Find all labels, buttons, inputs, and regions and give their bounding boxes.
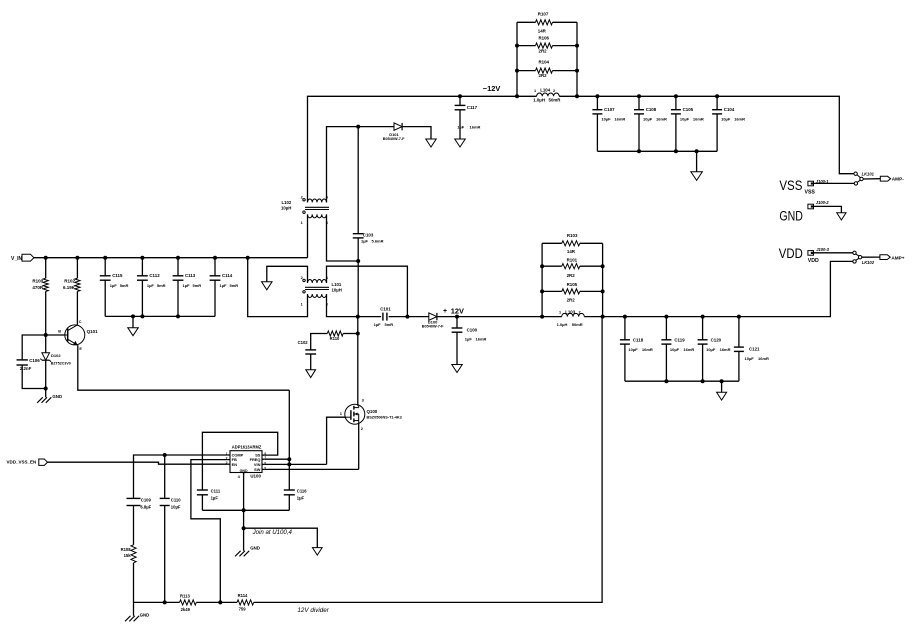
wire bank2 right bus — [602, 243, 604, 316]
svg-text:6.8µF: 6.8µF — [140, 505, 151, 510]
wire R103 leads — [542, 242, 562, 244]
pin SW stub — [262, 468, 265, 470]
svg-text:16mR: 16mR — [656, 116, 667, 121]
svg-text:C119: C119 — [674, 337, 685, 342]
svg-text:50mR: 50mR — [572, 322, 583, 327]
svg-text:C114: C114 — [222, 273, 233, 278]
wire R104 leads — [517, 70, 536, 72]
svg-text:C117: C117 — [467, 105, 478, 110]
svg-text:10µF: 10µF — [171, 505, 181, 510]
svg-text:B0540W-7-F: B0540W-7-F — [422, 325, 444, 329]
svg-text:470R: 470R — [32, 285, 44, 290]
svg-text:2k49: 2k49 — [181, 607, 191, 612]
svg-text:BZT52C3V0: BZT52C3V0 — [51, 361, 71, 365]
jumper LK101 — [854, 172, 857, 175]
svg-text:50mR: 50mR — [549, 98, 562, 103]
svg-text:2R2: 2R2 — [539, 73, 548, 78]
capacitor C120 — [698, 339, 708, 341]
svg-text:C112: C112 — [149, 273, 160, 278]
svg-text:VDD_VSS_EN: VDD_VSS_EN — [7, 460, 37, 465]
svg-text:12V divider: 12V divider — [297, 607, 329, 614]
svg-text:Q100: Q100 — [367, 409, 378, 414]
svg-text:1µF: 1µF — [374, 322, 382, 327]
node input bus junctions — [131, 314, 135, 318]
wire C118 leads — [624, 317, 626, 340]
resistor R114 — [237, 600, 254, 605]
svg-text:10µH: 10µH — [281, 205, 291, 210]
svg-text:1µF: 1µF — [297, 496, 305, 501]
connector J100-1 — [808, 181, 814, 186]
node C108 top — [637, 94, 641, 98]
node SW top junction — [356, 315, 360, 319]
pin FREQ stub — [262, 458, 265, 460]
wire R107 leads — [517, 21, 536, 23]
svg-text:16mR: 16mR — [614, 116, 625, 121]
wire bottom line left — [134, 601, 180, 603]
capacitor C117 — [455, 104, 466, 106]
svg-text:10µH: 10µH — [332, 288, 342, 293]
wire L101 pin1 to V_IN branch — [248, 258, 308, 317]
svg-text:12V: 12V — [451, 306, 464, 315]
wire R108 to bottom line — [133, 563, 135, 603]
wire C110 column — [164, 455, 166, 498]
capacitor C106 — [17, 359, 28, 361]
svg-text:5.6mR: 5.6mR — [372, 239, 384, 244]
svg-text:C103: C103 — [363, 232, 374, 237]
node bank2 right junctions — [601, 264, 605, 268]
node +12V bank bus junctions — [664, 379, 668, 383]
svg-text:C104: C104 — [724, 107, 735, 112]
svg-text:1µF: 1µF — [361, 239, 369, 244]
svg-text:C: C — [79, 320, 82, 324]
wire D101 cathode to ground — [402, 127, 431, 139]
inductor L104 — [537, 93, 560, 96]
wire +12V rail through bank2 — [542, 316, 562, 318]
capacitor C110 — [160, 497, 170, 499]
zener diode D102 — [42, 353, 50, 360]
capacitor C119 — [661, 339, 671, 341]
svg-text:3: 3 — [326, 303, 328, 307]
svg-text:2: 2 — [553, 89, 555, 93]
svg-text:759: 759 — [239, 606, 247, 611]
svg-text:C120: C120 — [711, 337, 722, 342]
wire +12V bank ground stub — [721, 381, 723, 392]
transformer L101 bottom winding — [308, 294, 327, 297]
resistor R101 — [562, 264, 580, 269]
svg-text:R108: R108 — [121, 547, 132, 552]
ground at C117 — [455, 139, 466, 147]
wire C117 leads — [459, 96, 461, 105]
svg-text:10µF: 10µF — [628, 347, 638, 352]
ground GND hatched at U100 — [235, 551, 241, 557]
wire L101 pin4 to C101 right node — [327, 266, 408, 316]
ground at C102 — [306, 370, 316, 378]
svg-text:R104: R104 — [539, 59, 550, 64]
capacitor C102 — [305, 349, 316, 351]
svg-text:AMP+: AMP+ — [891, 255, 904, 260]
wire supply vertical — [288, 390, 290, 490]
node bank1 left bus junctions — [515, 44, 519, 48]
wire zener to ground node — [45, 360, 47, 388]
svg-text:R103: R103 — [567, 233, 578, 238]
resistor R106 — [536, 43, 553, 48]
wire Q101 base wire — [46, 334, 65, 336]
node COMP C110 junction — [163, 453, 167, 457]
wire L102 pin4 to D101 anode node — [327, 127, 394, 203]
wire join at U100 4 — [244, 528, 318, 547]
wire base node to cap branch — [22, 335, 46, 359]
capacitor C109 — [127, 497, 141, 499]
svg-text:L101: L101 — [332, 282, 342, 287]
svg-text:2R2: 2R2 — [567, 273, 576, 278]
wire R102 bottom to Q101 collector — [76, 291, 78, 325]
wire C108 leads — [638, 96, 640, 109]
wire L101 pin3 to SW node — [327, 294, 358, 317]
svg-text:C110: C110 — [171, 497, 181, 502]
svg-text:+: + — [443, 308, 447, 315]
node ground bus junction — [242, 508, 246, 512]
wire SW line — [265, 468, 359, 470]
wire Q100 gate route — [327, 417, 345, 464]
wire C109 to R108 — [133, 506, 135, 545]
wire R105 leads — [542, 290, 562, 292]
svg-text:1.0µH: 1.0µH — [533, 98, 545, 103]
pin SS stub — [262, 454, 265, 456]
node C103 bottom / L102 pin3 junction — [356, 259, 360, 263]
wire C103 top lead — [357, 127, 359, 234]
wire D100 cathode to +12V rail — [438, 316, 542, 318]
svg-text:2R2: 2R2 — [567, 298, 576, 303]
capacitor C121 — [734, 346, 744, 348]
svg-text:16mR: 16mR — [470, 125, 481, 130]
wire +12V bank bottom bus — [625, 380, 739, 382]
wire -12V rail from L102 pin2 to LK101 — [308, 96, 537, 202]
node D101 anode / C103 top junction — [356, 125, 360, 129]
diode D101 — [394, 123, 402, 130]
wire SW node vertical to Q100 drain — [357, 317, 359, 406]
svg-text:L103: L103 — [565, 309, 576, 314]
wire C114 leads — [214, 258, 216, 276]
wire C113 leads — [177, 258, 179, 276]
svg-text:V_IN: V_IN — [11, 256, 23, 262]
node C117 top — [458, 94, 462, 98]
capacitor C113 — [173, 275, 184, 277]
input flag VDD_VSS_EN — [39, 459, 48, 465]
ground GND hatched at divider — [125, 616, 131, 622]
svg-text:1: 1 — [534, 89, 536, 93]
connector J100-3 — [808, 251, 814, 256]
svg-text:B: B — [58, 329, 61, 333]
node FREQ junction — [287, 457, 291, 461]
phase dot L102 top — [303, 199, 305, 201]
svg-text:R107: R107 — [538, 12, 549, 17]
capacitor C116 — [284, 489, 295, 491]
wire C107 leads — [596, 96, 598, 109]
resistor R107 — [536, 20, 553, 25]
node R110 junction — [356, 332, 360, 336]
wire FB route — [191, 460, 228, 603]
capacitor C101 — [382, 313, 384, 321]
svg-text:5mR: 5mR — [230, 283, 239, 288]
svg-text:2R2: 2R2 — [539, 49, 548, 54]
wire GND pin 4 down — [243, 473, 245, 551]
svg-text:AMP-: AMP- — [892, 177, 904, 182]
transformer L102 core — [305, 206, 329, 208]
wire EN line — [48, 462, 228, 464]
svg-text:10µF: 10µF — [670, 347, 680, 352]
wire bottom GND stub — [133, 602, 135, 615]
node C104 top — [715, 94, 719, 98]
ground at D101 cathode — [426, 139, 437, 147]
svg-text:Q101: Q101 — [87, 329, 99, 334]
svg-text:C115: C115 — [112, 273, 123, 278]
svg-text:C106: C106 — [29, 358, 40, 363]
svg-text:1: 1 — [301, 221, 303, 225]
svg-text:16mR: 16mR — [683, 347, 694, 352]
resistor R108 — [131, 545, 136, 563]
svg-text:16mR: 16mR — [642, 347, 653, 352]
wire input bus ground stub — [132, 316, 134, 327]
transistor Q101 — [65, 325, 85, 345]
node bank1 right bus junctions — [575, 44, 579, 48]
wire C102 bottom lead — [310, 354, 312, 369]
svg-text:R114: R114 — [238, 593, 248, 598]
capacitor C103 — [353, 233, 364, 235]
svg-text:C108: C108 — [646, 107, 657, 112]
svg-text:5mR: 5mR — [193, 283, 202, 288]
svg-text:5mR: 5mR — [385, 322, 394, 327]
wire L101 pin2 to ground — [267, 266, 308, 283]
svg-text:C113: C113 — [185, 273, 196, 278]
node +12V C100 junction — [455, 315, 459, 319]
wire LK101 to AMP- flag — [863, 178, 880, 180]
svg-text:1µF: 1µF — [457, 125, 465, 130]
svg-text:BSZ0506NS-T1-4K3: BSZ0506NS-T1-4K3 — [367, 416, 402, 420]
svg-text:R101: R101 — [567, 257, 578, 262]
node V_IN rail junctions — [44, 256, 48, 260]
ground at +12V bank — [717, 392, 727, 400]
svg-text:GND: GND — [140, 613, 150, 618]
svg-text:3: 3 — [326, 221, 328, 225]
connector J100-2 — [808, 204, 814, 209]
node C105 top — [674, 94, 678, 98]
resistor R110 — [327, 331, 343, 336]
wire Q100 source route — [358, 423, 360, 470]
pin COMP stub — [228, 454, 230, 456]
wire +12V rail right section to LK102 — [603, 261, 853, 316]
svg-text:C109: C109 — [141, 497, 152, 502]
svg-text:10µF: 10µF — [745, 356, 755, 361]
node C110 bottom junction — [163, 600, 167, 604]
wire bottom line to +12V bank bus — [254, 317, 602, 603]
wire top bank left bus — [516, 22, 518, 96]
node C119 top — [664, 315, 668, 319]
wire R101 leads — [542, 265, 562, 267]
wire top bank right bus — [576, 22, 578, 96]
diode D100 — [429, 313, 437, 320]
resistor R104 — [536, 68, 553, 73]
resistor R105 — [562, 289, 580, 294]
node FB tap junction — [218, 600, 222, 604]
node C101 right junction — [405, 315, 409, 319]
wire R100 bottom to zener — [45, 291, 47, 352]
svg-text:R105: R105 — [567, 282, 578, 287]
node -12V bank bus junctions — [637, 149, 641, 153]
wire R100 top lead — [45, 258, 47, 279]
wire SW node to C101 — [358, 316, 381, 318]
svg-text:1µF: 1µF — [465, 337, 473, 342]
transformer L101 core — [305, 286, 329, 288]
capacitor C104 — [712, 109, 722, 111]
jumper LK102 — [853, 251, 856, 254]
svg-text:1µF: 1µF — [147, 283, 155, 288]
svg-text:−12V: −12V — [483, 84, 501, 93]
svg-text:R100: R100 — [32, 279, 43, 284]
phase dot L101 bottom — [303, 291, 305, 293]
svg-text:D100: D100 — [428, 319, 438, 324]
svg-text:C111: C111 — [211, 488, 221, 493]
svg-text:C118: C118 — [633, 337, 644, 342]
svg-text:C101: C101 — [380, 306, 391, 311]
transformer L101 top winding — [308, 280, 327, 283]
ground at L101 pin2 — [262, 282, 273, 290]
resistor R113 — [180, 600, 197, 605]
svg-text:ADP1613ARMZ: ADP1613ARMZ — [232, 444, 262, 449]
capacitor C115 — [100, 275, 111, 277]
svg-text:1: 1 — [301, 303, 303, 307]
svg-text:VDD: VDD — [779, 246, 803, 262]
wire -12V bank bottom bus — [597, 150, 717, 152]
wire C119 leads — [665, 317, 667, 340]
capacitor C112 — [137, 275, 148, 277]
svg-text:C100: C100 — [467, 328, 478, 333]
ground at join wire — [312, 548, 322, 556]
inductor L103 — [562, 313, 585, 316]
svg-text:16mR: 16mR — [720, 347, 731, 352]
wire J100-1 to LK101 — [814, 182, 855, 184]
svg-text:L104: L104 — [540, 88, 551, 93]
wire U100 ground bus — [202, 509, 289, 511]
svg-text:VDD: VDD — [808, 258, 819, 264]
output flag AMP+ — [880, 255, 890, 260]
svg-text:14R: 14R — [538, 28, 547, 33]
pin GND stub — [243, 473, 245, 475]
op-amp U100 body — [230, 451, 262, 473]
wire C121 leads — [738, 317, 740, 347]
capacitor C107 — [592, 109, 602, 111]
node C118 top — [623, 315, 627, 319]
svg-text:C105: C105 — [683, 107, 694, 112]
phase dot L101 top — [303, 279, 305, 281]
svg-text:C121: C121 — [749, 347, 760, 352]
svg-text:1µF: 1µF — [220, 283, 228, 288]
svg-text:10µF: 10µF — [706, 347, 716, 352]
svg-text:J100-3: J100-3 — [816, 247, 829, 252]
svg-text:6.19K: 6.19K — [63, 285, 76, 290]
output flag AMP- — [880, 176, 890, 181]
svg-text:R106: R106 — [539, 35, 550, 40]
wire to GND stub — [45, 389, 47, 398]
transformer L102 bottom winding — [308, 214, 327, 217]
node Q101 base junction — [44, 333, 48, 337]
wire input caps bottom bus — [105, 315, 215, 317]
svg-text:2: 2 — [579, 311, 581, 315]
wire SS loop to C111 — [202, 432, 277, 489]
svg-text:C116: C116 — [297, 488, 307, 493]
svg-text:LK102: LK102 — [862, 260, 875, 265]
ground GND hatched at D102 — [37, 397, 43, 403]
wire C104 leads — [716, 96, 718, 109]
wire bank2 left bus — [541, 243, 543, 316]
capacitor C108 — [634, 109, 644, 111]
svg-text:E: E — [79, 347, 82, 351]
svg-text:GND: GND — [52, 394, 62, 399]
node VIN junction — [287, 462, 291, 466]
svg-text:10µF: 10µF — [721, 116, 731, 121]
phase dot L102 bottom — [303, 211, 305, 213]
svg-text:L102: L102 — [282, 200, 292, 205]
wire COMP line — [134, 455, 228, 498]
svg-text:U100: U100 — [250, 474, 261, 479]
pin FB stub — [228, 459, 230, 461]
node C121 top — [737, 315, 741, 319]
input flag V_IN — [22, 254, 34, 261]
svg-text:C102: C102 — [298, 340, 309, 345]
ground at C100 — [452, 365, 463, 373]
wire R110 right lead — [343, 333, 358, 335]
wire L102 pin3 to node — [327, 214, 359, 261]
svg-text:R113: R113 — [180, 593, 190, 598]
wire R102 top lead — [76, 258, 78, 279]
svg-text:Join at U100,4: Join at U100,4 — [252, 529, 293, 536]
wire C100 leads — [456, 317, 458, 328]
svg-text:2: 2 — [301, 276, 303, 280]
svg-text:EN: EN — [232, 462, 238, 467]
wire V_IN rail — [34, 257, 308, 259]
svg-text:16mR: 16mR — [693, 116, 704, 121]
capacitor C100 — [452, 327, 463, 329]
wire C112 leads — [141, 258, 143, 276]
transistor Q100 — [345, 404, 365, 424]
svg-text:1µF: 1µF — [183, 283, 191, 288]
svg-text:16mR: 16mR — [734, 116, 745, 121]
svg-text:GND: GND — [250, 545, 260, 550]
svg-text:R102: R102 — [64, 279, 75, 284]
svg-text:1µF: 1µF — [110, 283, 118, 288]
transformer L102 top winding — [308, 199, 327, 202]
svg-text:10µF: 10µF — [643, 116, 653, 121]
svg-text:14R: 14R — [567, 249, 576, 254]
svg-text:GND: GND — [779, 208, 803, 224]
pin EN stub — [228, 463, 230, 465]
svg-text:D102: D102 — [51, 353, 61, 358]
wire J100-3 to LK102 — [814, 252, 853, 254]
ground at -12V bank — [691, 172, 703, 181]
wire R106 leads — [517, 45, 536, 47]
wire Q101 emitter supply route — [78, 345, 289, 390]
svg-text:B0540W-7-F: B0540W-7-F — [383, 137, 405, 141]
node C120 top — [701, 315, 705, 319]
svg-text:VSS: VSS — [779, 178, 802, 194]
ground at J100-2 — [837, 213, 846, 220]
resistor R103 — [562, 241, 580, 246]
svg-text:10µF: 10µF — [601, 116, 611, 121]
svg-text:10µF: 10µF — [680, 116, 690, 121]
resistor R100 — [43, 278, 48, 291]
node C107 top — [595, 94, 599, 98]
resistor R102 — [75, 278, 80, 291]
svg-text:SW: SW — [254, 467, 261, 472]
